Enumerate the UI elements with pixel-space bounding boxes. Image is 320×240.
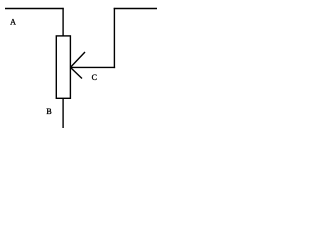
wire: terminal A horizontal	[5, 8, 64, 10]
wire: terminal A vertical down to resistor top	[62, 8, 64, 37]
resistor body (potentiometer)	[56, 36, 70, 98]
wire: terminal C top horizontal to right edge	[114, 8, 157, 10]
wiper arrow lower barb	[70, 67, 82, 78]
wire: wiper vertical up	[113, 8, 115, 68]
potentiometer schematic	[0, 0, 157, 132]
svg-text:A: A	[10, 18, 16, 27]
wire: terminal B vertical	[62, 98, 64, 128]
svg-text:C: C	[92, 73, 97, 82]
wire: wiper horizontal	[70, 66, 115, 68]
svg-text:B: B	[46, 107, 51, 116]
wiper arrow upper barb	[70, 52, 85, 67]
